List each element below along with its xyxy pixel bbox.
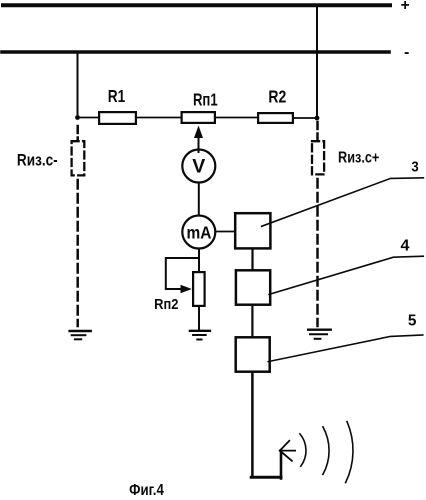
svg-text:R1: R1 (108, 88, 126, 107)
svg-text:Rиз.с+: Rиз.с+ (338, 149, 379, 166)
svg-text:Rп1: Rп1 (193, 91, 218, 110)
svg-text:mA: mA (187, 222, 212, 242)
svg-text:-: - (404, 44, 409, 61)
svg-text:Фиг.4: Фиг.4 (129, 482, 164, 499)
svg-text:3: 3 (411, 158, 419, 175)
svg-text:5: 5 (408, 312, 417, 329)
svg-text:Rиз.с-: Rиз.с- (17, 151, 58, 170)
svg-text:+: + (401, 0, 410, 14)
svg-text:R2: R2 (268, 88, 286, 107)
svg-text:Rп2: Rп2 (154, 296, 179, 312)
svg-text:4: 4 (400, 238, 409, 255)
svg-text:V: V (192, 155, 205, 177)
